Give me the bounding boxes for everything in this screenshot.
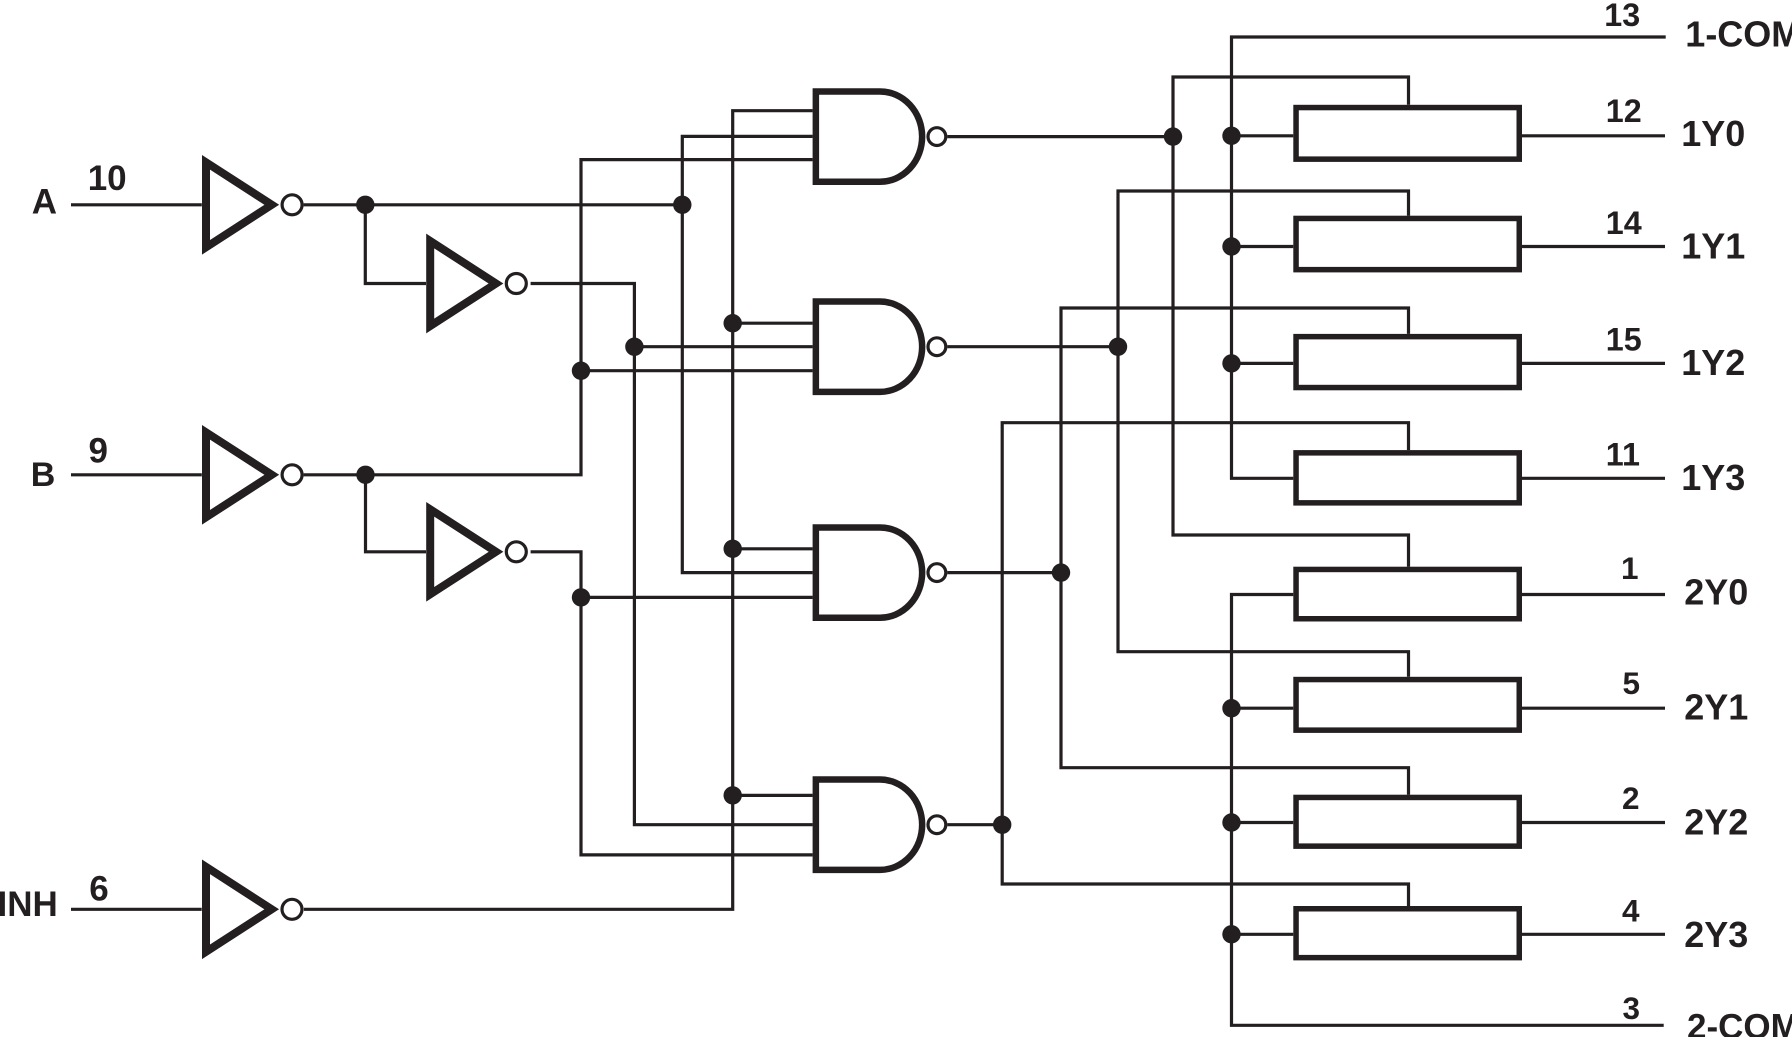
wire NOT-INH from U5 output <box>304 111 813 910</box>
wire U4 input branch from node B1 <box>366 475 427 552</box>
transmission gate TG8 (2Y3) <box>1296 909 1519 958</box>
node 2-COM junction TG7 <box>1222 813 1240 831</box>
wire G1 output <box>947 135 1173 138</box>
wire B2 (buffered B) net <box>531 552 813 855</box>
transmission gate TG3 (1Y2) <box>1296 337 1519 388</box>
wire 2-COM stub to TG6 <box>1232 707 1294 710</box>
wire G2 select to TG2 and TG6 tops <box>1118 191 1409 677</box>
wire NOT-INH branch to G2 input <box>733 322 813 325</box>
wire G3 output <box>947 571 1061 574</box>
wire 1-COM stub to TG3 <box>1232 362 1294 365</box>
node A2 junction to G2 <box>625 338 643 356</box>
wire A2 branch to G2 input <box>634 345 812 348</box>
inverter U1 (A, pin 10) <box>206 162 302 247</box>
wire 2Y2 output pin 2 <box>1522 821 1665 824</box>
svg-text:12: 12 <box>1606 93 1642 129</box>
svg-text:1Y1: 1Y1 <box>1681 225 1745 266</box>
nand gate G3 <box>816 527 946 617</box>
wire B2 branch to G3 input <box>581 596 813 599</box>
svg-text:1-COM: 1-COM <box>1685 13 1792 54</box>
wire NOT-INH branch to G3 input <box>733 547 813 550</box>
wire INH input pin 6 <box>71 908 202 911</box>
svg-text:1Y3: 1Y3 <box>1681 457 1745 498</box>
svg-text:2Y0: 2Y0 <box>1684 571 1748 612</box>
wire 1-COM stub to TG2 <box>1232 245 1294 248</box>
svg-text:3: 3 <box>1623 990 1641 1026</box>
inverter U4 (B buffer) <box>430 509 526 594</box>
inverter U2 (A buffer) <box>430 241 526 326</box>
wire U2 input branch from node A1 <box>365 205 426 284</box>
wire NOT-INH branch to G4 input <box>733 794 813 797</box>
svg-text:1Y2: 1Y2 <box>1681 342 1745 383</box>
node NOT-INH junction to G4 <box>724 786 742 804</box>
svg-text:B: B <box>31 456 56 494</box>
node B1 junction <box>356 466 374 484</box>
nand gate G2 <box>816 302 946 392</box>
svg-text:A: A <box>32 182 57 221</box>
node 1-COM junction TG3 <box>1222 354 1240 372</box>
wire G4 output <box>947 823 1002 826</box>
wire G4 select to TG4 and TG8 tops <box>1002 423 1408 906</box>
svg-text:14: 14 <box>1606 205 1642 241</box>
wire G2 output <box>947 345 1118 348</box>
node NOT-INH junction to G2 <box>724 314 742 332</box>
svg-text:4: 4 <box>1622 892 1640 928</box>
transmission gate TG2 (1Y1) <box>1296 218 1519 269</box>
svg-text:11: 11 <box>1606 437 1640 473</box>
wire NOT-B from U3 output <box>304 160 813 475</box>
wire 1Y0 output pin 12 <box>1522 134 1665 137</box>
wire 2-COM stub to TG8 <box>1232 933 1294 936</box>
svg-text:1: 1 <box>1621 550 1639 586</box>
wire 1-COM stub to TG1 <box>1232 134 1294 137</box>
svg-text:INH: INH <box>0 885 58 924</box>
svg-text:6: 6 <box>89 870 108 909</box>
wire 1Y3 output pin 11 <box>1522 477 1665 480</box>
node G3 output junction <box>1052 563 1070 581</box>
svg-text:2: 2 <box>1622 780 1640 816</box>
wire 1-COM bus pin 13 <box>1232 37 1666 478</box>
node 1-COM junction TG1 <box>1222 127 1240 145</box>
wire NOT-B branch to G2 input <box>581 369 813 372</box>
transmission gate TG6 (2Y1) <box>1296 680 1519 731</box>
wire 2Y1 output pin 5 <box>1522 707 1665 710</box>
wire G1 select to TG1 top <box>1173 77 1409 567</box>
svg-text:10: 10 <box>88 159 127 198</box>
node G2 output junction <box>1109 338 1127 356</box>
wire 2-COM stub to TG7 <box>1232 821 1294 824</box>
transmission gate TG5 (2Y0) <box>1296 569 1519 618</box>
svg-text:13: 13 <box>1604 0 1640 33</box>
transmission gate TG7 (2Y2) <box>1296 797 1519 846</box>
inverter U3 (B, pin 9) <box>206 432 302 517</box>
node A1 junction <box>356 196 374 214</box>
svg-text:1Y0: 1Y0 <box>1681 113 1745 154</box>
node 2-COM junction TG8 <box>1222 925 1240 943</box>
node 2-COM junction TG6 <box>1222 699 1240 717</box>
wire 1Y1 output pin 14 <box>1522 245 1665 248</box>
wire A2 (buffered A) net <box>531 284 813 825</box>
wire B input pin 9 <box>71 473 202 476</box>
svg-text:5: 5 <box>1623 665 1641 701</box>
transmission gate TG4 (1Y3) <box>1296 453 1519 503</box>
node NOT-A junction at G1 column <box>673 196 691 214</box>
nand gate G1 <box>816 91 946 181</box>
node G1 output junction <box>1164 127 1182 145</box>
wire 2Y0 output pin 1 <box>1522 593 1665 596</box>
wire A input pin 10 <box>71 203 202 206</box>
svg-text:2Y3: 2Y3 <box>1684 914 1748 955</box>
nand gate G4 <box>816 780 946 870</box>
wire NOT-A from U1 output <box>304 203 683 206</box>
node B2 junction to G3 <box>572 588 590 606</box>
node NOT-B junction to G2 <box>572 362 590 380</box>
svg-text:15: 15 <box>1606 322 1642 358</box>
node G4 output junction <box>993 816 1011 834</box>
wire 2-COM bus pin 3 <box>1232 595 1664 1026</box>
transmission gate TG1 (1Y0) <box>1296 108 1519 160</box>
wire 1Y2 output pin 15 <box>1522 362 1665 365</box>
svg-text:9: 9 <box>89 432 108 471</box>
svg-text:2-COM: 2-COM <box>1687 1008 1792 1037</box>
svg-text:2Y1: 2Y1 <box>1684 686 1748 727</box>
wire G3 select to TG3 and TG7 tops <box>1061 308 1409 795</box>
node NOT-INH junction to G3 <box>724 540 742 558</box>
wire 2Y3 output pin 4 <box>1522 933 1665 936</box>
wire NOT-A vertical to G1 and G3 <box>682 136 812 572</box>
node 1-COM junction TG2 <box>1222 237 1240 255</box>
svg-text:2Y2: 2Y2 <box>1684 801 1748 842</box>
inverter U5 (INH, pin 6) <box>206 867 302 952</box>
